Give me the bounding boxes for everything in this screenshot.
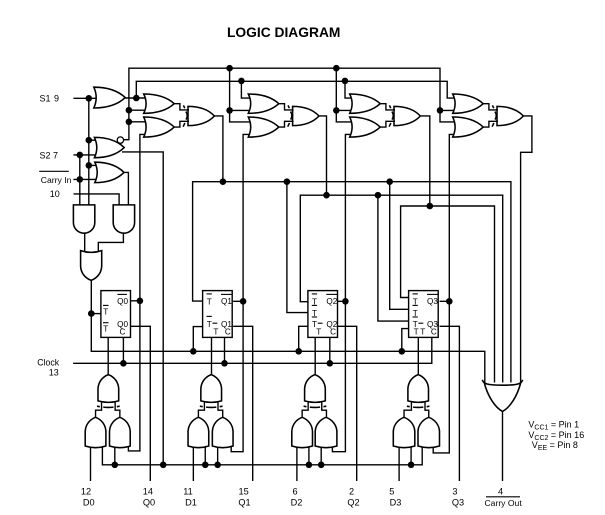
svg-text:T: T	[207, 297, 212, 306]
junction Sbus 3a	[306, 462, 313, 469]
wire bottom XOR1 output to FF1	[107, 337, 109, 374]
wire S-bus riser	[217, 444, 219, 465]
svg-text:Q1: Q1	[238, 497, 250, 507]
wire T branch FF3	[299, 326, 308, 351]
svg-text:T: T	[103, 307, 108, 316]
wire T branch FF4	[402, 329, 409, 352]
flip-flop FF1 Q/C labels	[221, 293, 233, 295]
wire S1 input	[73, 97, 97, 99]
or-gate bottom-right stage1	[110, 417, 131, 447]
or-gate U1 S1 buffer	[94, 87, 125, 108]
wire net FB1	[193, 182, 511, 383]
junction FB1/XOR1	[220, 178, 227, 185]
junction Sbus 4	[408, 462, 415, 469]
junction FB3/XOR3	[427, 203, 434, 210]
label Carry In overline	[39, 170, 69, 172]
wire S1 branch to NOR U2	[89, 139, 98, 141]
svg-text:11: 11	[183, 487, 193, 497]
or-gate stage1 upper A	[144, 94, 175, 113]
or-gate bottom-right stage4	[418, 417, 440, 447]
junction FB2/FF4	[375, 192, 382, 199]
wire FB1 branch FF3	[287, 182, 308, 313]
flip-flop FF3 T input labels	[413, 293, 418, 295]
junction L1 stage2	[226, 65, 233, 72]
xor-gate bottom stage3	[305, 375, 326, 403]
wire OR U1 output	[125, 97, 147, 99]
junction L2 stage2	[238, 78, 245, 85]
or-gate stage3 lower B	[350, 117, 381, 137]
wire FB2 branch FF4	[378, 195, 409, 321]
svg-text:T: T	[414, 327, 419, 336]
junction Sbus 2a	[202, 462, 209, 469]
wire net FB2	[300, 195, 502, 382]
junction Q0bar	[137, 298, 144, 305]
svg-text:4: 4	[498, 487, 503, 497]
wire L1 branch stage3 upper	[336, 109, 353, 111]
wire Q3 output to pin 3	[440, 326, 460, 481]
wire D2 pin 6	[296, 445, 298, 482]
svg-text:T: T	[316, 327, 321, 336]
wire Q2bar net	[332, 134, 353, 451]
or-gate stage4 lower B	[453, 117, 484, 137]
nor-gate U2 bubble	[117, 137, 123, 143]
wire pin10 line to AND U5	[74, 194, 120, 205]
wire D3 pin 5	[398, 445, 400, 482]
junction Tbus/FF3	[295, 348, 302, 355]
wire T branch FF2	[193, 327, 202, 352]
flip-flop U8 FF0 box	[101, 291, 131, 338]
wire stage4 ORB to XOR stub	[483, 121, 498, 127]
or-gate bottom-right stage3	[315, 417, 337, 447]
svg-text:D0: D0	[83, 497, 95, 507]
junction S1/OR U3	[86, 162, 93, 169]
svg-text:2: 2	[349, 487, 354, 497]
junction Sbus 2b	[214, 462, 221, 469]
svg-text:T: T	[207, 320, 212, 329]
wire S-bus riser	[204, 444, 206, 465]
wire clock drop FF1	[122, 337, 124, 363]
wire S-bus riser	[308, 444, 310, 465]
svg-text:Clock: Clock	[37, 357, 60, 367]
svg-text:C: C	[330, 328, 336, 337]
wire OR U3 output to AND U5	[124, 172, 128, 205]
svg-text:LOGIC DIAGRAM: LOGIC DIAGRAM	[227, 25, 340, 40]
and-gate U5	[113, 205, 134, 233]
wire OR to XOR1 right stub	[115, 402, 120, 418]
svg-text:T: T	[213, 327, 218, 336]
junction CarryIn/S2 vert	[77, 176, 84, 183]
or-gate U7 carry out	[482, 380, 522, 385]
flip-flop U11 FF3 box	[409, 291, 439, 338]
svg-text:9: 9	[54, 93, 59, 103]
wire L1 branch stage2 upper	[230, 109, 252, 111]
svg-text:Q2: Q2	[326, 297, 337, 306]
wire S-bus riser	[410, 444, 412, 465]
wire stage1 ORB to XOR stub	[174, 121, 189, 127]
junction FB1/FF3	[284, 178, 291, 185]
xor-gate stage3	[394, 106, 420, 125]
wire stage1 ORA to XOR stub	[174, 104, 189, 110]
flip-flop U9 FF1 box	[203, 291, 233, 338]
junction T/FF1	[88, 310, 95, 317]
wire XOR2 output net	[319, 116, 326, 195]
junction S1/NOR	[86, 137, 93, 144]
svg-text:Carry Out: Carry Out	[484, 498, 522, 508]
flip-flop FF0 T input labels	[103, 304, 109, 306]
svg-text:14: 14	[143, 487, 153, 497]
junction L1drop stage2	[226, 107, 233, 114]
wire stage3 ORA to XOR stub	[380, 104, 395, 110]
flip-flop U10 FF2 box	[308, 291, 338, 338]
junction FB2/XOR2	[323, 192, 330, 199]
wire stage3 ORB to XOR stub	[380, 121, 395, 127]
junction Q3bar	[446, 298, 453, 305]
svg-text:15: 15	[238, 487, 248, 497]
junction L1 stage3	[333, 65, 340, 72]
svg-text:S2: S2	[40, 150, 51, 160]
svg-text:Carry In: Carry In	[41, 175, 72, 185]
wire OR to XOR4 left stub	[404, 402, 411, 418]
svg-text:D3: D3	[390, 497, 402, 507]
wire L2 drop stage2	[241, 81, 251, 98]
junction clock FF2	[221, 360, 228, 367]
or-gate U6	[81, 251, 102, 281]
svg-text:Q0: Q0	[143, 497, 155, 507]
wire L2 drop stage3	[345, 81, 353, 98]
or-gate bottom-left stage2	[188, 417, 209, 447]
xor-gate bottom stage4	[408, 375, 429, 403]
svg-text:T: T	[103, 325, 108, 334]
or-gate stage2 upper A	[248, 94, 278, 113]
wire clock drop FF2	[224, 337, 226, 363]
wire OR to XOR4 right stub	[425, 402, 429, 418]
wire Q1 output to pin 15	[233, 326, 253, 481]
junction S2	[77, 152, 84, 159]
junction Tbus/FF4	[399, 348, 406, 355]
wire bottom XOR2 output to FF2	[211, 337, 213, 374]
or-gate stage2 lower B	[248, 117, 278, 137]
junction FB1/FF4	[386, 178, 393, 185]
junction clock FF3	[327, 360, 334, 367]
junction Sbus NOR drop	[160, 462, 167, 469]
svg-text:12: 12	[81, 487, 91, 497]
wire T branch FF1	[91, 313, 101, 315]
wire Q0 output to pin 14	[130, 326, 150, 481]
wire S1 branch to OR U3	[89, 164, 99, 166]
or-gate bottom-left stage3	[292, 417, 313, 447]
wire net L1 top bus from NOR bubble	[124, 68, 456, 140]
wire net L2 top bus	[136, 81, 456, 98]
wire S1 vertical to AND U4	[88, 98, 90, 205]
junction L1drop stage3	[333, 107, 340, 114]
wire bottom S-bus	[102, 444, 422, 465]
junction L1drop stage4	[437, 107, 444, 114]
wire NOR U2 output to bottom bus	[122, 152, 163, 465]
svg-text:Q3: Q3	[452, 497, 464, 507]
svg-text:13: 13	[49, 368, 59, 378]
or-gate stage3 upper A	[350, 94, 381, 113]
junction L2 stage3	[342, 78, 349, 85]
junction L1 stage1 upper	[126, 107, 133, 114]
flip-flop FF1 T input labels	[207, 293, 212, 295]
wire bottom XOR4 output to FF4	[417, 337, 419, 374]
svg-text:Q3: Q3	[427, 297, 438, 306]
wire S-bus riser	[114, 444, 116, 465]
wire Q3bar net	[433, 134, 456, 453]
flip-flop FF3 Q/C labels	[427, 293, 439, 295]
wire L1 drop stage2	[230, 68, 252, 122]
wire D0 pin 12	[90, 445, 92, 482]
nor-gate U2 body	[94, 137, 124, 157]
wire Q2 output to pin 2	[338, 326, 357, 481]
wire OR to XOR2 left stub	[198, 402, 204, 418]
svg-text:7: 7	[53, 150, 58, 160]
svg-text:T: T	[420, 327, 425, 336]
svg-text:Q0: Q0	[117, 297, 128, 306]
wire Q0bar net	[128, 134, 147, 451]
svg-text:Q1: Q1	[221, 297, 232, 306]
svg-text:Q2: Q2	[347, 497, 359, 507]
wire Carry In input	[73, 178, 98, 180]
wire bottom XOR3 output to FF3	[314, 337, 316, 374]
or-gate bottom-left stage4	[393, 417, 415, 447]
wire AND U5 output jog	[98, 233, 123, 252]
junction Sbus 1	[112, 462, 119, 469]
wire OR to XOR2 right stub	[218, 402, 223, 418]
xor-gate stage2	[293, 106, 319, 125]
wire L1 branch stage1 lower	[129, 121, 147, 123]
junction S1	[86, 95, 93, 102]
xor-gate stage1	[188, 106, 214, 125]
wire stage2 ORB to XOR stub	[279, 121, 294, 127]
wire OR to XOR3 left stub	[302, 402, 308, 418]
wire S2 input	[73, 154, 98, 156]
flip-flop FF2 Q/C labels	[326, 293, 338, 295]
wire S-bus riser	[320, 444, 322, 465]
or-gate U3 carry-in	[95, 162, 124, 182]
wire clock drop FF3	[329, 337, 331, 363]
junction Q1bar	[240, 298, 247, 305]
svg-text:C: C	[225, 328, 231, 337]
wire net FB3	[401, 206, 495, 383]
wire D1 pin 11	[192, 445, 194, 482]
junction clock FF1	[120, 360, 127, 367]
svg-text:S1: S1	[40, 93, 51, 103]
wire clock bus	[73, 337, 432, 363]
flip-flop FF0 Q/C labels	[117, 293, 127, 295]
svg-text:D1: D1	[185, 497, 197, 507]
wire XOR4 output net	[521, 116, 532, 383]
wire L1 branch stage4 upper	[440, 109, 456, 111]
and-gate U4	[73, 205, 94, 233]
junction L1 stage1 lower	[126, 119, 133, 126]
or-gate stage1 lower B	[144, 117, 175, 137]
or-gate bottom-left stage1	[85, 417, 106, 447]
wire L1 branch stage1 upper	[129, 109, 147, 111]
flip-flop FF2 T input labels	[312, 293, 317, 295]
wire AND U4 output	[84, 233, 86, 252]
svg-text:3: 3	[452, 487, 457, 497]
wire Carry Out pin 4	[502, 411, 504, 481]
svg-text:C: C	[431, 328, 437, 337]
junction Tbus/FF2	[190, 348, 197, 355]
svg-text:6: 6	[292, 487, 297, 497]
xor-gate bottom stage2	[201, 375, 222, 403]
wire OR to XOR1 left stub	[96, 402, 102, 418]
wire S2 vertical to AND U4	[79, 155, 81, 205]
junction Q2bar	[342, 298, 349, 305]
junction Sbus 3b	[318, 462, 325, 469]
junction OR U1 out / L2	[133, 95, 140, 102]
wire stage4 ORA to XOR stub	[483, 104, 498, 110]
xor-gate bottom stage1	[98, 375, 119, 403]
svg-text:5: 5	[389, 487, 394, 497]
wire XOR1 output net	[214, 116, 223, 182]
wire stage2 ORA to XOR stub	[279, 104, 294, 110]
wire L1 drop stage3	[336, 68, 353, 122]
svg-text:10: 10	[50, 189, 60, 199]
or-gate bottom-right stage2	[212, 417, 233, 447]
wire T-enable bus	[91, 280, 485, 382]
wire Q1bar net	[231, 134, 252, 451]
wire XOR3 output net	[421, 116, 430, 206]
svg-text:C: C	[119, 328, 125, 337]
or-gate stage4 upper A	[453, 94, 484, 113]
xor-gate stage4	[497, 106, 523, 125]
svg-text:D2: D2	[291, 497, 303, 507]
wire OR to XOR3 right stub	[322, 402, 327, 418]
wire FB1 branch FF4	[390, 182, 409, 310]
